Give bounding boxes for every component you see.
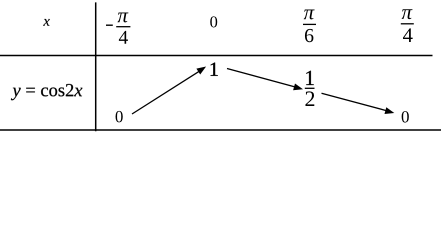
table middle horizontal rule bbox=[0, 55, 433, 57]
falling arrow head bbox=[385, 107, 395, 114]
value 0 (last) bbox=[402, 111, 409, 122]
denominator 2 of 1/2 bbox=[305, 91, 314, 106]
numerator pi of -pi/4 bbox=[118, 13, 129, 23]
fraction bar of -pi/4 bbox=[116, 26, 130, 28]
fraction bar of pi/6 bbox=[303, 23, 316, 25]
falling arrow shaft from 1/2 to 0 bbox=[322, 93, 387, 110]
table vertical divider bbox=[95, 2, 97, 131]
falling arrow shaft from 1 to 1/2 bbox=[227, 69, 295, 87]
value 1/2 numerator 1 bbox=[306, 71, 314, 85]
rising arrow head bbox=[196, 67, 206, 75]
row label y = cos2x bbox=[11, 84, 82, 100]
header value 0 bbox=[210, 16, 217, 27]
rising arrow shaft from 0 to 1 bbox=[132, 72, 199, 114]
minus sign of -pi/4 bbox=[106, 24, 113, 26]
header variable x bbox=[43, 19, 50, 26]
table bottom horizontal rule bbox=[0, 129, 441, 131]
numerator pi of pi/6 bbox=[304, 10, 315, 20]
fraction bar of pi/4 bbox=[401, 23, 414, 25]
fraction bar of 1/2 bbox=[305, 87, 315, 89]
denominator 4 of -pi/4 bbox=[119, 31, 128, 44]
numerator pi of pi/4 bbox=[402, 9, 413, 19]
denominator 6 of pi/6 bbox=[305, 29, 313, 42]
value 0 (first) bbox=[116, 111, 123, 122]
falling arrow head bbox=[293, 84, 303, 91]
denominator 4 of pi/4 bbox=[403, 28, 413, 42]
value 1 bbox=[211, 63, 218, 76]
